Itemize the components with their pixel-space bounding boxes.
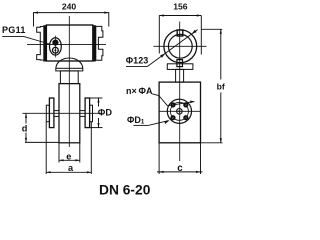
svg-text:e: e: [66, 152, 71, 162]
svg-text:156: 156: [173, 2, 188, 12]
svg-text:Φ123: Φ123: [126, 56, 148, 66]
svg-text:c: c: [177, 163, 183, 174]
svg-text:d: d: [22, 124, 28, 134]
svg-text:PG11: PG11: [2, 25, 26, 35]
svg-text:ΦD1: ΦD1: [127, 115, 145, 126]
svg-text:240: 240: [62, 2, 77, 12]
svg-text:bf: bf: [217, 81, 225, 91]
svg-text:n× ΦA: n× ΦA: [126, 86, 153, 96]
svg-text:ΦD: ΦD: [98, 108, 113, 118]
svg-text:a: a: [68, 163, 74, 173]
svg-text:DN 6-20: DN 6-20: [99, 183, 151, 198]
